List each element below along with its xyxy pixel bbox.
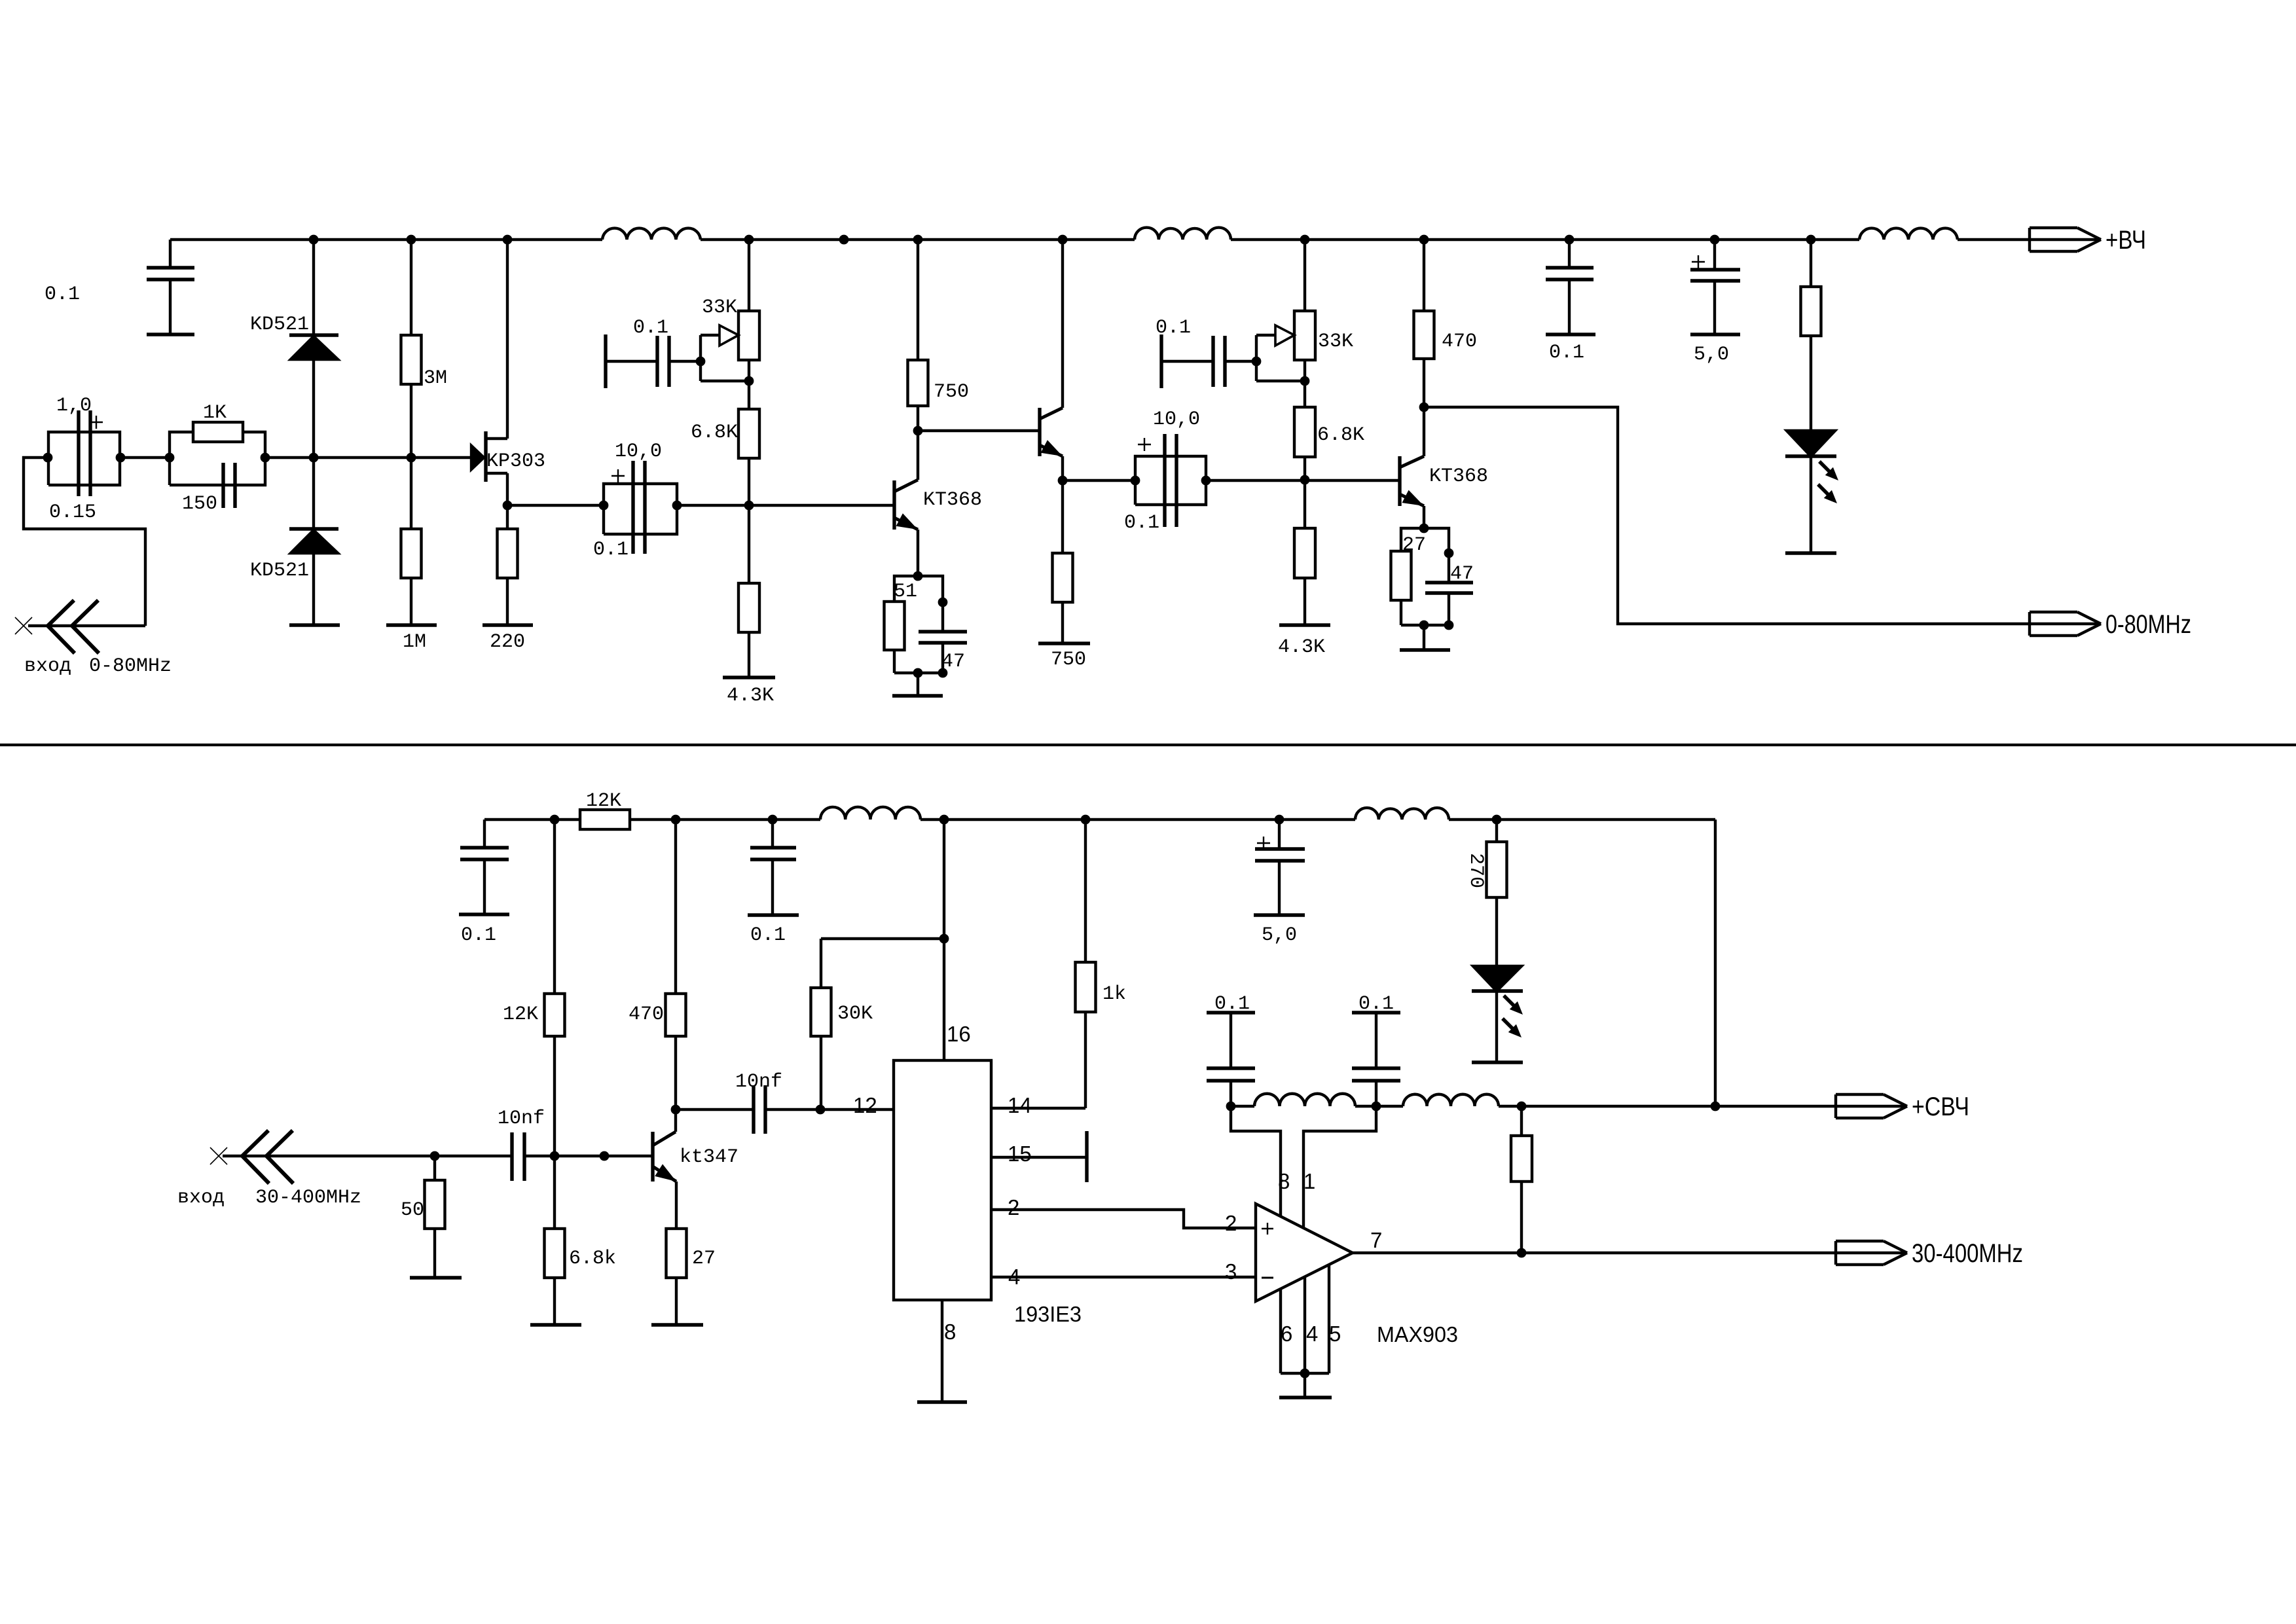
label 0.1 (supply A) — [1214, 993, 1250, 1015]
svg-text:33K: 33K — [1318, 331, 1353, 353]
wire net1-net2 — [120, 456, 170, 459]
label 0.1 (right rail) — [1549, 342, 1584, 364]
capacitor network 10,0 || 0.1 (coupling 1) — [604, 461, 677, 554]
svg-text:+СВЧ: +СВЧ — [1912, 1092, 1969, 1121]
svg-text:12: 12 — [853, 1093, 877, 1117]
ground (Q1 emitter) — [892, 694, 943, 697]
label 220 — [490, 631, 525, 653]
potentiometer 33K (stage 2) with 0.1 cap and 6.8K — [606, 240, 759, 505]
ground (comparator) — [1279, 1396, 1332, 1399]
wire to ground (Q3 emitter net) — [1423, 625, 1425, 650]
junction on +V rail — [1300, 235, 1310, 245]
resistor 51 with capacitor 47 (Q1 emitter) — [884, 576, 968, 673]
wire pin 7 output — [1353, 1252, 1836, 1254]
label KD521 (VD1) — [250, 314, 309, 336]
label 12K (bias) — [503, 1003, 538, 1026]
node kt347 collector — [671, 1105, 681, 1115]
transistor Q2 (emitter follower) — [1040, 240, 1063, 480]
resistor 470 (kt347 collector) — [666, 820, 686, 1110]
capacitor 0.1 (right rail) — [1546, 240, 1595, 334]
junction on +V rail — [1710, 235, 1720, 245]
label 6.8k — [569, 1248, 616, 1270]
plus input mark — [1262, 1223, 1273, 1235]
svg-text:0.1: 0.1 — [750, 924, 786, 947]
node bottom mid (Q3) — [1419, 621, 1429, 630]
label 12K (rail) — [586, 790, 621, 812]
svg-text:30-400MHz: 30-400MHz — [1912, 1239, 2023, 1268]
wiper node (stage3) — [1252, 357, 1262, 367]
node B (gate net) — [116, 453, 126, 463]
wire IC pin 8 ground — [941, 1300, 943, 1402]
wire +СВЧ segment 2 — [1355, 1105, 1403, 1108]
capacitor network 10,0 || 0.1 (coupling 2) — [1135, 434, 1206, 527]
node 47 top (Q3) — [1444, 549, 1454, 558]
svg-text:12K: 12K — [503, 1003, 538, 1026]
svg-text:0.1: 0.1 — [45, 283, 80, 306]
ground (VD2) — [289, 623, 340, 626]
svg-text:14: 14 — [1008, 1093, 1032, 1117]
svg-text:4.3K: 4.3K — [1278, 636, 1325, 659]
wire to ground (Q1 emitter net) — [917, 673, 919, 696]
label 1,0 — [56, 395, 92, 417]
node Q2 emitter — [1058, 476, 1068, 486]
svg-text:30K: 30K — [837, 1003, 873, 1025]
svg-text:51: 51 — [894, 581, 917, 603]
svg-text:0.1: 0.1 — [1549, 342, 1584, 364]
wire Q3 collector to output — [1424, 407, 2030, 624]
svg-text:1k: 1k — [1102, 983, 1126, 1005]
capacitor 5,0 (electrolytic, top) — [1690, 240, 1740, 334]
svg-text:0.1: 0.1 — [1124, 512, 1159, 534]
node F — [672, 501, 682, 511]
svg-text:10,0: 10,0 — [1153, 408, 1200, 431]
label 5,0 (top) — [1694, 344, 1729, 366]
resistor 220 — [498, 505, 518, 625]
node 30K bottom junction — [816, 1105, 826, 1115]
ground (750 Q2) — [1038, 641, 1090, 645]
junction on +V rail — [1058, 235, 1068, 245]
junction on +СВЧ line — [1226, 1102, 1236, 1111]
wire top +V rail segment 4 — [1958, 238, 2030, 241]
transistor KP303 JFET — [471, 240, 507, 505]
inductor L1 (top rail) — [602, 228, 701, 240]
node output/resistor — [1517, 1248, 1527, 1258]
wire base row Q3 — [1206, 479, 1400, 482]
ground (27) — [651, 1323, 703, 1326]
ground (LED bottom) — [1472, 1060, 1523, 1064]
polarity + (5,0 top) — [1692, 255, 1705, 268]
inductor L3 (top rail) — [1859, 228, 1958, 240]
label pin 5 — [1329, 1322, 1341, 1346]
label 4.3K (stage3) — [1278, 636, 1325, 659]
junction on +СВЧ line — [1372, 1102, 1381, 1111]
resistor 27 (kt347 emitter) — [666, 1229, 687, 1325]
node Q1 collector — [913, 426, 923, 436]
junction on bottom rail — [671, 815, 681, 825]
label вход (top input) — [24, 655, 71, 677]
wiper node (stage2) — [696, 357, 706, 367]
polarity + (5,0 bottom) — [1257, 837, 1270, 850]
wire pin 4 to pin 3 — [991, 1276, 1256, 1278]
svg-text:7: 7 — [1370, 1228, 1382, 1252]
label 0.1 (C1) — [45, 283, 80, 306]
svg-text:750: 750 — [1051, 649, 1086, 671]
label 0.15 — [49, 501, 96, 524]
junction on bottom rail — [939, 815, 949, 825]
svg-text:470: 470 — [1442, 331, 1477, 353]
wire comparator pin 8 supply — [1231, 1106, 1281, 1217]
label 0-80MHz (top input) — [89, 655, 172, 677]
capacitor 0.1 (bottom rail mid) — [748, 820, 799, 915]
label pin 4 (IC) — [1008, 1265, 1020, 1289]
node 30K junction — [939, 934, 949, 944]
svg-text:4: 4 — [1008, 1265, 1020, 1289]
LED HL1 (top) — [1785, 431, 1838, 553]
junction on +V rail — [503, 235, 513, 245]
label pin 1 (comparator) — [1303, 1169, 1315, 1193]
resistor 3M — [401, 240, 422, 458]
resistor 1k — [1076, 820, 1096, 1108]
node source KP303 — [503, 501, 513, 511]
node A (gate net left) — [43, 453, 53, 463]
svg-text:вход: вход — [24, 655, 71, 677]
connector вход 30-400MHz (input) — [242, 1130, 293, 1183]
label 3M — [424, 367, 447, 389]
svg-text:50: 50 — [401, 1199, 424, 1221]
transistor Q1 KT368 — [894, 431, 918, 576]
wire top +V rail segment 1 — [170, 238, 602, 241]
svg-text:16: 16 — [947, 1022, 971, 1046]
junction on +V rail — [1565, 235, 1575, 245]
wire +СВЧ segment 1 — [1231, 1105, 1254, 1108]
svg-text:193IE3: 193IE3 — [1014, 1302, 1082, 1326]
label 0.1 (pot2) — [633, 317, 668, 339]
ground (6.8k) — [530, 1323, 581, 1326]
node 50 top — [430, 1151, 440, 1161]
resistor 27 with capacitor 47 (Q3 emitter) — [1391, 528, 1474, 625]
node bottom right (Q3) — [1444, 621, 1454, 630]
svg-text:kt347: kt347 — [680, 1146, 738, 1168]
label 0-80MHz (output) — [2105, 610, 2191, 639]
svg-text:15: 15 — [1008, 1142, 1032, 1166]
pot bottom node (stage2) — [744, 376, 754, 386]
junction KD521/gate row — [309, 453, 319, 463]
diode VD1 KD521 (to rail) — [289, 240, 338, 458]
inductor L6 (+СВЧ filter) — [1254, 1094, 1355, 1106]
label 0.1 (supply B) — [1358, 993, 1394, 1015]
resistor (LED series, top) — [1801, 240, 1821, 431]
svg-text:+ВЧ: +ВЧ — [2105, 226, 2146, 255]
label 30-400MHz (bottom input) — [255, 1187, 361, 1209]
svg-text:0-80MHz: 0-80MHz — [89, 655, 172, 677]
svg-text:0.1: 0.1 — [1214, 993, 1250, 1015]
label pin 2 (IC) — [1008, 1195, 1019, 1219]
svg-text:270: 270 — [1465, 853, 1487, 888]
transistor Q3 KT368 — [1400, 407, 1424, 528]
label pin 2 (comparator) — [1225, 1211, 1237, 1235]
wire comparator pin 1 supply — [1303, 1106, 1376, 1228]
svg-text:0-80MHz: 0-80MHz — [2105, 610, 2191, 639]
label 1K — [203, 402, 227, 424]
connector +BЧ output — [2030, 228, 2101, 251]
svg-text:5: 5 — [1329, 1322, 1341, 1346]
node 47 top — [938, 598, 948, 607]
junction on +V rail — [309, 235, 319, 245]
svg-text:0.1: 0.1 — [633, 317, 668, 339]
inductor L2 (top rail) — [1135, 228, 1231, 240]
label pin 4 (comparator) — [1306, 1322, 1318, 1346]
resistor 750 (Q2 emitter) — [1053, 480, 1073, 643]
svg-text:10nf: 10nf — [735, 1071, 782, 1093]
svg-text:27: 27 — [692, 1248, 716, 1270]
node bottom mid — [913, 668, 923, 678]
svg-text:27: 27 — [1402, 534, 1426, 556]
svg-text:8: 8 — [944, 1320, 956, 1344]
svg-text:MAX903: MAX903 — [1377, 1322, 1458, 1346]
label 47 (Q1) — [941, 651, 965, 673]
wire comparator ground stem — [1303, 1373, 1306, 1398]
resistor 270 — [1487, 820, 1507, 966]
label pin 15 — [1008, 1142, 1032, 1166]
label pin 14 — [1008, 1093, 1032, 1117]
svg-text:3: 3 — [1225, 1259, 1237, 1284]
node Q3 collector — [1419, 403, 1429, 412]
resistor 50 — [425, 1156, 445, 1278]
label 27 (Q3) — [1402, 534, 1426, 556]
svg-text:1: 1 — [1303, 1169, 1315, 1193]
junction on +V rail — [744, 235, 754, 245]
label 5,0 (bottom) — [1262, 924, 1297, 947]
junction on +V rail — [839, 235, 849, 245]
wire source row — [507, 504, 604, 507]
junction on +V rail — [1419, 235, 1429, 245]
svg-text:6: 6 — [1281, 1322, 1292, 1346]
label +ВЧ — [2105, 226, 2146, 255]
connector +СВЧ output — [1836, 1094, 1907, 1118]
node E — [599, 501, 609, 511]
capacitor 0.1 (comparator supply A) — [1207, 1013, 1255, 1106]
wire top +V rail segment 3 — [1231, 238, 1859, 241]
label pin 6 — [1281, 1322, 1292, 1346]
wire input to gate (up/left/up) — [24, 458, 145, 626]
resistor (output pull) — [1511, 1106, 1532, 1253]
label MAX903 — [1377, 1322, 1458, 1346]
junction on +V rail — [913, 235, 923, 245]
label pin 12 — [853, 1093, 877, 1117]
label вход (bottom input) — [177, 1187, 225, 1209]
node comparator ground — [1300, 1369, 1310, 1379]
label 6.8K (stage3) — [1317, 424, 1364, 446]
label 470 (Q3) — [1442, 331, 1477, 353]
svg-text:5,0: 5,0 — [1694, 344, 1729, 366]
capacitor 0.1 (comparator supply B) — [1352, 1013, 1400, 1106]
capacitor network 1,0 || 0.15 — [48, 410, 120, 496]
ground (IC pin 8) — [917, 1400, 967, 1403]
svg-text:33K: 33K — [702, 297, 737, 319]
label 1k — [1102, 983, 1126, 1005]
junction on +СВЧ line — [1517, 1102, 1527, 1111]
svg-text:KD521: KD521 — [250, 314, 309, 336]
terminal bar pin 15 — [1085, 1131, 1088, 1182]
svg-text:30-400MHz: 30-400MHz — [255, 1187, 361, 1209]
resistor 12K (bias column) — [545, 820, 565, 1156]
svg-text:12K: 12K — [586, 790, 621, 812]
junction on +V rail — [407, 235, 416, 245]
transistor kt347 — [653, 1110, 676, 1229]
node base Q3 — [1300, 475, 1310, 485]
junction on bottom rail — [1275, 815, 1285, 825]
ground (1M) — [386, 623, 437, 626]
label +СВЧ — [1912, 1092, 1969, 1121]
svg-text:2: 2 — [1008, 1195, 1019, 1219]
svg-text:KT368: KT368 — [923, 489, 982, 511]
wire comparator pin 4 — [1303, 1277, 1306, 1373]
resistor 470 (Q3 collector) — [1414, 240, 1434, 407]
potentiometer 33K (stage 3) with 0.1 cap and 6.8K — [1161, 240, 1315, 480]
wire input stub — [28, 624, 145, 627]
capacitor C1 0.1 (rail decoupling, far left) — [147, 240, 194, 334]
junction on bottom rail — [550, 815, 560, 825]
node H — [1201, 476, 1211, 486]
label 27 (kt347) — [692, 1248, 716, 1270]
junction on +V rail — [1806, 235, 1816, 245]
wire bottom rail segment 4 — [1449, 818, 1715, 821]
label 33K (pot3) — [1318, 331, 1353, 353]
resistor 750 (Q1 collector) — [908, 240, 928, 431]
svg-text:0.15: 0.15 — [49, 501, 96, 524]
label pin 8 (IC) — [944, 1320, 956, 1344]
wire Q1 collector to Q2 base — [918, 429, 1040, 432]
svg-text:0.1: 0.1 — [593, 539, 629, 561]
resistor 1K with capacitor 150 parallel — [170, 422, 265, 508]
wire comparator pin 6 — [1279, 1289, 1282, 1373]
junction on bottom rail — [1081, 815, 1091, 825]
junction on bottom rail — [1492, 815, 1502, 825]
svg-text:1K: 1K — [203, 402, 227, 424]
capacitor 10nf (collector coupling) — [676, 1085, 894, 1134]
ground (4.3K stage2) — [723, 676, 775, 679]
junction 3M/gate row — [407, 453, 416, 463]
wire pin 2 to comparator — [991, 1210, 1256, 1228]
node Q3 emitter — [1419, 524, 1429, 533]
connector 0-80MHz output — [2030, 612, 2101, 636]
svg-text:0.1: 0.1 — [461, 924, 496, 947]
ground (LED top) — [1785, 551, 1836, 554]
wire bottom rail segment 1 — [484, 818, 580, 821]
wire pin16 column — [943, 820, 945, 1060]
polarity + (1,0) — [90, 416, 103, 429]
label 0.1 (pot3) — [1156, 317, 1191, 339]
label 750 (Q2) — [1051, 649, 1086, 671]
label KP303 — [486, 450, 545, 473]
wire pin 15 — [991, 1156, 1087, 1159]
label 47 (Q3) — [1450, 563, 1474, 585]
svg-text:6.8K: 6.8K — [691, 422, 738, 444]
wire +СВЧ segment 3 — [1499, 1105, 1836, 1108]
wire pins 6-5 join — [1281, 1372, 1329, 1375]
label 30-400MHz (output) — [1912, 1239, 2023, 1268]
connector вход 0-80MHz (input) — [48, 600, 99, 653]
wire pin 14 — [991, 1107, 1085, 1110]
IC 193IE3 divider box — [894, 1060, 991, 1300]
svg-text:220: 220 — [490, 631, 525, 653]
input terminal X mark (bottom) — [210, 1147, 227, 1164]
label KD521 (VD2) — [250, 560, 309, 582]
comparator MAX903 triangle — [1256, 1204, 1353, 1301]
diode VD2 KD521 (to ground) — [289, 458, 338, 625]
label 0.1 (bottom rail left) — [461, 924, 496, 947]
svg-text:KT368: KT368 — [1429, 465, 1488, 488]
label pin 16 — [947, 1022, 971, 1046]
label 0.1 (coupling 1) — [593, 539, 629, 561]
minus input mark — [1262, 1277, 1273, 1279]
svg-text:вход: вход — [177, 1187, 225, 1209]
label pin 7 — [1370, 1228, 1382, 1252]
svg-text:4: 4 — [1306, 1322, 1318, 1346]
connector 30-400MHz output — [1836, 1241, 1907, 1265]
label 270 (rotated) — [1465, 853, 1487, 888]
inductor L7 (+СВЧ filter) — [1403, 1094, 1499, 1106]
svg-text:6.8K: 6.8K — [1317, 424, 1364, 446]
wire bottom input row — [223, 1155, 435, 1157]
node bottom right — [938, 668, 948, 678]
ground (50) — [410, 1276, 462, 1279]
svg-text:1,0: 1,0 — [56, 395, 92, 417]
svg-text:10nf: 10nf — [498, 1108, 545, 1130]
resistor 1M — [401, 458, 422, 625]
svg-text:150: 150 — [182, 493, 217, 515]
svg-text:6.8k: 6.8k — [569, 1248, 616, 1270]
label 51 — [894, 581, 917, 603]
svg-text:750: 750 — [934, 381, 969, 403]
svg-text:1M: 1M — [403, 631, 426, 653]
inductor L4 (bottom rail) — [820, 807, 920, 820]
label KT368 (Q1) — [923, 489, 982, 511]
label 1M — [403, 631, 426, 653]
capacitor 10nf (input coupling) — [435, 1132, 653, 1181]
label 750 (Q1) — [934, 381, 969, 403]
junction on +СВЧ line — [1711, 1102, 1721, 1111]
svg-text:0.1: 0.1 — [1358, 993, 1394, 1015]
svg-text:0.1: 0.1 — [1156, 317, 1191, 339]
ground (Q3 emitter) — [1400, 648, 1450, 651]
polarity + (10,0 #1) — [611, 469, 625, 482]
svg-text:KD521: KD521 — [250, 560, 309, 582]
wire gate row — [265, 456, 471, 459]
label 30K — [837, 1003, 873, 1025]
wire Q2 emitter row — [1063, 479, 1135, 482]
svg-text:8: 8 — [1278, 1169, 1290, 1193]
node base kt347 junction — [550, 1151, 560, 1161]
wire bottom rail segment 2 — [630, 818, 820, 821]
wire comparator pin 5 — [1328, 1265, 1330, 1373]
resistor 6.8k — [545, 1156, 565, 1325]
svg-text:470: 470 — [629, 1003, 664, 1026]
capacitor 5,0 (electrolytic, bottom) — [1254, 820, 1305, 915]
ground (220) — [483, 623, 533, 626]
svg-text:4.3K: 4.3K — [727, 685, 774, 707]
svg-text:47: 47 — [941, 651, 965, 673]
node Q1 emitter — [913, 571, 923, 581]
label 50 — [401, 1199, 424, 1221]
node C — [165, 453, 175, 463]
polarity + (10,0 #2) — [1138, 438, 1151, 451]
label 470 (kt347) — [629, 1003, 664, 1026]
label 0.1 (coupling 2) — [1124, 512, 1159, 534]
junction (stray dot) — [600, 1151, 610, 1161]
resistor 12K (rail series) — [580, 810, 630, 829]
ground (4.3K stage3) — [1279, 623, 1330, 626]
